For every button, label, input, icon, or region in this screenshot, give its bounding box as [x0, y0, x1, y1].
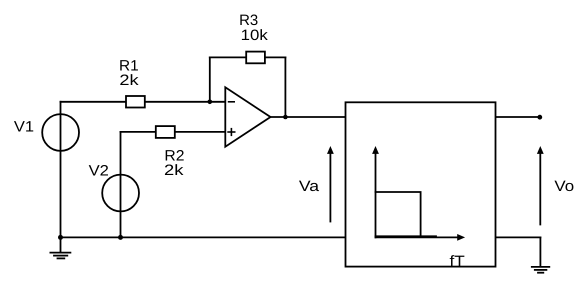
wire block output right [496, 116, 540, 118]
wire V2 vertical branch [120, 132, 122, 238]
wire V1 vertical branch [60, 102, 62, 238]
svg-text:Va: Va [299, 178, 320, 195]
graph x-axis [376, 236, 459, 238]
Vo arrow [539, 153, 541, 225]
graph y-axis [375, 153, 377, 238]
svg-text:V1: V1 [14, 119, 34, 136]
svg-text:Vo: Vo [554, 178, 574, 195]
transfer-function block [346, 102, 496, 266]
junction dot output node [283, 115, 288, 120]
ground right [532, 266, 550, 268]
ground left [60, 237, 62, 252]
svg-text:10k: 10k [241, 27, 269, 44]
resistor R1 [126, 96, 145, 108]
wire block lower right horizontal [496, 236, 541, 238]
svg-text:2k: 2k [119, 72, 139, 89]
wire right ground drop [539, 237, 541, 266]
op-amp inverting pin minus sign [229, 101, 235, 103]
Va arrow [329, 153, 331, 222]
wire inverting input rail [61, 101, 226, 103]
junction dot inverting node [208, 100, 213, 105]
wire feedback top horizontal [210, 56, 286, 58]
resistor R2 [156, 126, 175, 138]
svg-text:fT: fT [450, 253, 465, 270]
op-amp non-inverting pin plus sign [228, 131, 235, 133]
graph curve zero segment on axis [376, 235, 437, 237]
resistor R3 [246, 52, 265, 64]
voltage source V2 [102, 175, 139, 212]
svg-text:2k: 2k [164, 162, 184, 179]
wire non-inverting input rail [121, 131, 226, 133]
op-amp U1 [225, 87, 270, 146]
wire feedback right vertical [284, 57, 286, 117]
wire feedback left vertical [209, 57, 211, 101]
wire op-amp output [271, 116, 346, 118]
junction dot V1 ground [58, 235, 63, 240]
svg-text:V2: V2 [89, 162, 109, 179]
voltage source V1 [42, 114, 79, 151]
junction dot V2 ground [118, 235, 123, 240]
graph response curve (step) [376, 192, 421, 236]
wire ground rail [61, 236, 346, 238]
terminal dot output [537, 115, 542, 120]
